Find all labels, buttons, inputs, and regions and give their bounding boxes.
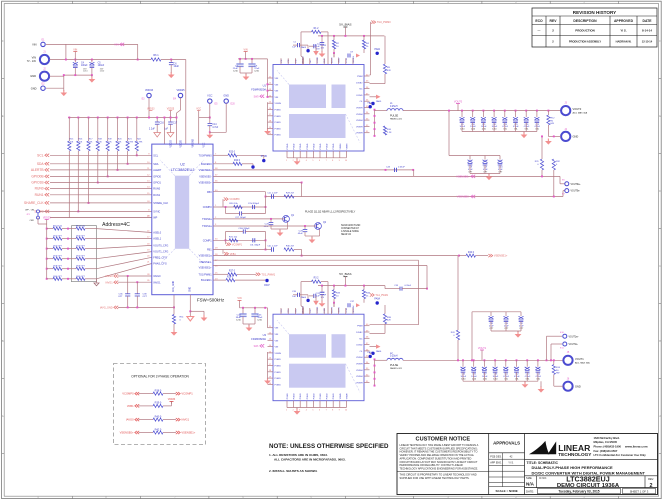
svg-text:VSWH: VSWH	[356, 364, 363, 366]
U3 PGND ground	[267, 378, 269, 381]
net flag VOUT0 tee	[456, 103, 460, 105]
wire VSENSE1+ corner down	[426, 266, 428, 289]
resistor R59	[76, 267, 85, 270]
U1 VIN input rail	[238, 58, 268, 60]
svg-text:PGND: PGND	[320, 393, 322, 399]
resistor R15 pull-up	[68, 118, 70, 142]
svg-text:YI S.: YI S.	[508, 462, 514, 465]
svg-text:VIN: VIN	[73, 48, 77, 51]
svg-text:VSWH: VSWH	[356, 108, 363, 110]
svg-text:VSENSE1+: VSENSE1+	[494, 254, 508, 258]
svg-text:NOTE: UNLESS OTHERWISE SPECIFI: NOTE: UNLESS OTHERWISE SPECIFIED	[269, 443, 389, 450]
phase0 J4 ground	[547, 139, 549, 142]
linear technology logo	[529, 441, 549, 454]
capacitor C4	[74, 60, 76, 63]
svg-text:VOUT0: VOUT0	[454, 100, 463, 103]
svg-text:VOUT1s-: VOUT1s-	[569, 344, 579, 346]
capacitor C18 47uF OPT	[469, 156, 471, 160]
svg-text:OPTIONAL FOR 2-PHASE OPERATION: OPTIONAL FOR 2-PHASE OPERATION	[131, 375, 189, 379]
terminal E20 GND	[224, 99, 228, 103]
svg-text:R1 2: R1 2	[314, 28, 320, 30]
wire VCC pin into U2	[198, 111, 200, 145]
svg-text:TG1/PWM1: TG1/PWM1	[199, 273, 213, 276]
svg-text:A SINGLE NODE: A SINGLE NODE	[341, 230, 359, 233]
svg-text:GPIO1: GPIO1	[153, 182, 161, 185]
svg-text:IAVG0: IAVG0	[153, 275, 161, 278]
wire addr row to U2	[85, 248, 97, 250]
resistor R26 207	[284, 248, 294, 251]
svg-text:TG0/PWM0: TG0/PWM0	[199, 154, 213, 157]
phase0 opt cap bus	[470, 155, 500, 157]
svg-text:PA0B: PA0B	[367, 102, 373, 105]
resistor R55	[76, 247, 85, 250]
wires sense to terminals	[541, 170, 543, 176]
connector J6 GND	[563, 382, 572, 391]
C33 ground	[321, 301, 323, 304]
power tee VDD33	[170, 400, 174, 402]
svg-text:1uF: 1uF	[316, 296, 320, 298]
wire E20 GND drop	[225, 103, 227, 132]
capacitor C1 1uF	[297, 43, 299, 47]
capacitor C45 100uF	[462, 359, 464, 361]
svg-text:VSENSE1+: VSENSE1+	[199, 267, 213, 270]
capacitor C51 47uF OPT	[520, 312, 522, 316]
svg-text:Address=4C: Address=4C	[102, 222, 130, 228]
svg-text:PA02: PA02	[374, 48, 380, 51]
svg-text:REV: REV	[550, 19, 558, 23]
svg-text:VSWH: VSWH	[356, 357, 363, 359]
wire VSENSE1+ long	[213, 265, 427, 267]
svg-text:43nF: 43nF	[298, 233, 304, 235]
TSNS0 wire to Q1	[213, 218, 282, 220]
svg-text:ASEL1: ASEL1	[153, 238, 161, 241]
svg-text:R6 1: R6 1	[153, 54, 159, 57]
svg-text:IAVG1: IAVG1	[105, 281, 113, 284]
svg-text:FDMF6820A: FDMF6820A	[251, 88, 266, 92]
svg-text:PGND: PGND	[275, 378, 282, 380]
capacitor C54 470uF	[537, 359, 539, 361]
svg-text:VSWH: VSWH	[356, 133, 363, 135]
svg-text:PGND: PGND	[307, 143, 309, 149]
test pad PA0C	[369, 355, 372, 358]
svg-text:PCB DES.: PCB DES.	[490, 455, 502, 458]
svg-text:RUN1: RUN1	[153, 194, 160, 197]
wire phase1 output rail	[403, 359, 564, 361]
wire VINSNS drop	[185, 60, 187, 145]
net flag TG0_PWM0 top	[249, 154, 251, 156]
resistor R6	[151, 58, 161, 61]
svg-text:R30 207: R30 207	[286, 246, 295, 248]
svg-text:NC: NC	[359, 89, 363, 91]
capacitor C17 1uF	[170, 118, 172, 122]
capacitor C45 39uF	[254, 308, 256, 314]
svg-text:PGND: PGND	[333, 393, 335, 399]
capacitor C21 2.2nF	[271, 194, 273, 198]
U2 AVG_GND ground	[173, 330, 175, 333]
svg-text:PGND: PGND	[275, 359, 282, 361]
net flag VSENSE0+ mid	[471, 175, 475, 178]
svg-text:IAVG0: IAVG0	[126, 418, 134, 422]
capacitor C52 470uF	[516, 359, 518, 361]
terminal E2 GND	[41, 86, 45, 90]
net flag VSENSE0- mid	[471, 195, 475, 198]
svg-text:N/A: N/A	[526, 482, 535, 487]
wire VSENSE0a drop	[413, 170, 415, 177]
inductor L1	[387, 109, 403, 111]
svg-text:2: 2	[650, 483, 653, 489]
svg-text:PA0C: PA0C	[367, 351, 373, 354]
svg-text:GPIO0: GPIO0	[153, 176, 161, 179]
svg-text:C2H 330pF: C2H 330pF	[248, 203, 260, 205]
ic U2 LTC3882EUJ body	[152, 144, 213, 295]
ic U3 FDMF6820A body	[273, 314, 364, 401]
svg-text:YI S.: YI S.	[620, 29, 626, 33]
wire E4 down to bus end	[180, 98, 182, 110]
wire GPIO1B signal	[50, 182, 152, 184]
capacitor C33 1uF	[321, 286, 323, 292]
resistor R53	[76, 237, 85, 240]
svg-text:ALERT: ALERT	[153, 169, 161, 172]
Q1 ground	[279, 230, 281, 233]
svg-text:REVISION HISTORY: REVISION HISTORY	[573, 10, 616, 15]
U3 bottom PGND ground	[296, 409, 298, 412]
capacitor C2H 330pF	[252, 205, 254, 209]
capacitor C8 22uF	[251, 59, 253, 64]
connector J4 GND	[561, 132, 570, 141]
resistor R20 pull-up	[117, 118, 119, 142]
sense resistors R29 R32	[540, 159, 543, 170]
capacitor C28 43nF	[270, 218, 272, 220]
svg-text:SDA: SDA	[153, 163, 158, 166]
svg-text:HW: HW	[551, 123, 554, 125]
svg-text:VDD25: VDD25	[181, 139, 183, 147]
svg-text:APPROVED: APPROVED	[614, 19, 634, 23]
test pad PA07	[251, 165, 254, 168]
svg-text:TECHNOLOGY: TECHNOLOGY	[558, 452, 592, 457]
wire J2/E2 ground link	[50, 75, 64, 77]
customer notice box	[488, 434, 490, 495]
U2 GND branch ground	[190, 310, 204, 312]
svg-text:RUN0: RUN0	[35, 187, 44, 191]
svg-text:OPT: OPT	[143, 296, 148, 298]
C14 ground	[209, 132, 211, 135]
wire J6 link	[554, 385, 564, 387]
svg-text:SYNC: SYNC	[153, 211, 160, 214]
inductor L2	[387, 358, 403, 360]
svg-text:42K: 42K	[387, 70, 391, 72]
svg-text:PGND: PGND	[287, 393, 289, 399]
capacitor C4L 2.2nF	[271, 247, 273, 251]
terminal E7 VOUT0s-	[553, 196, 555, 198]
capacitor C110 47uF OPT	[499, 156, 501, 160]
resistor R14	[546, 359, 548, 361]
svg-text:PGND: PGND	[275, 372, 282, 374]
capacitor C25 470uF	[515, 110, 517, 112]
svg-text:GPIO1B: GPIO1B	[31, 181, 44, 185]
svg-text:ECO: ECO	[535, 19, 543, 23]
U1 CGND arrow	[370, 96, 377, 98]
test pad PA05 OL	[371, 102, 374, 105]
svg-text:1uF: 1uF	[292, 47, 296, 49]
svg-text:Fax: (408)434-0507: Fax: (408)434-0507	[594, 449, 618, 453]
wire RUN0 signal	[50, 188, 152, 190]
wire TG0_PWM0 net vertical	[371, 21, 375, 24]
resistor R30 10k	[234, 205, 243, 208]
net flag VSENSE1+ right	[488, 254, 492, 257]
svg-text:R38 0: R38 0	[155, 389, 162, 392]
svg-text:VCC: VCC	[204, 142, 206, 147]
resistor R50	[46, 228, 48, 230]
wire IAVG_GND	[118, 306, 174, 308]
svg-text:PHAS_CFG: PHAS_CFG	[153, 263, 167, 266]
capacitor C11 100uF	[482, 110, 484, 112]
svg-text:SW1: SW1	[254, 346, 260, 348]
svg-text:VIN: VIN	[275, 347, 279, 349]
net flag VIN U3	[238, 299, 242, 301]
wire TG1 net horizontal	[370, 324, 419, 326]
svg-text:VCOMP1: VCOMP1	[232, 243, 243, 246]
wire IAVG0	[118, 275, 152, 277]
svg-text:VIN: VIN	[275, 334, 279, 336]
svg-text:VINSNS: VINSNS	[193, 138, 195, 147]
resistor R27 TG1	[228, 273, 237, 276]
wire SYNC signal	[50, 210, 152, 212]
U1 PGND left stubs	[267, 102, 269, 127]
svg-text:DESCRIPTION: DESCRIPTION	[573, 19, 597, 23]
svg-text:PA05: PA05	[376, 100, 382, 103]
resistor R51	[76, 227, 85, 230]
U1 PGND ground	[267, 129, 269, 132]
svg-text:TECHNOLOGY APPLICATIONS ENGINE: TECHNOLOGY APPLICATIONS ENGINEERING FOR …	[400, 466, 479, 470]
svg-text:RUN1: RUN1	[35, 193, 44, 197]
resistor R10 1.2K	[383, 126, 386, 135]
capacitor C37 cluster	[333, 302, 335, 304]
C16 analog ground	[154, 133, 161, 138]
wire WP to U2	[37, 218, 39, 224]
U2 bottom GND stub	[189, 295, 191, 317]
net flag VFB1	[135, 404, 139, 407]
capacitor C6	[170, 60, 172, 63]
U3 VSWH left label	[260, 344, 264, 347]
svg-text:GPIO0B: GPIO0B	[31, 175, 44, 179]
svg-text:PULSE: PULSE	[390, 364, 399, 367]
svg-text:R42 0: R42 0	[155, 428, 162, 431]
wire addr row to U2	[85, 258, 97, 260]
svg-text:C3H 330pF: C3H 330pF	[238, 228, 250, 230]
svg-text:1630 McCarthy Blvd.: 1630 McCarthy Blvd.	[594, 436, 621, 440]
capacitor C3 2.2uF	[313, 44, 315, 48]
resistor R22 pull-up	[136, 118, 138, 142]
svg-text:VOUT1s+: VOUT1s+	[569, 336, 580, 338]
svg-text:6: 6	[319, 160, 320, 162]
phase1 cap bottom bus	[463, 380, 538, 382]
svg-text:PGND: PGND	[275, 116, 282, 118]
U3 bottom PGND bus	[287, 407, 346, 409]
net flag IAVG1	[114, 281, 118, 284]
svg-text:DISB#: DISB#	[356, 332, 363, 334]
svg-text:4: 4	[306, 410, 307, 412]
svg-text:C14: C14	[212, 124, 217, 126]
terminal E11 VOUT1s-	[551, 343, 562, 345]
svg-text:COMP0: COMP0	[203, 206, 213, 209]
power tee VIN on rail	[73, 51, 77, 53]
U1 bottom PGND bus	[287, 157, 346, 159]
address network right column box	[72, 226, 97, 282]
wire WP signal	[50, 217, 152, 219]
svg-text:R53 OPT: R53 OPT	[76, 236, 85, 238]
resistor R16 pull-up	[77, 118, 79, 142]
wire ALERTB signal	[50, 169, 152, 171]
svg-text:VIN: VIN	[275, 340, 279, 342]
capacitor C14 4.7uF	[209, 118, 211, 124]
wire VSENSE0s short	[213, 182, 302, 184]
svg-text:TSNS0a: TSNS0a	[202, 218, 212, 221]
net flag VCOMP1	[176, 392, 180, 395]
svg-text:7: 7	[326, 410, 327, 412]
svg-text:5: 5	[312, 410, 313, 412]
svg-text:5V_BIAS: 5V_BIAS	[339, 272, 351, 276]
svg-text:6: 6	[319, 410, 320, 412]
svg-text:LTC3882EUJ: LTC3882EUJ	[171, 167, 195, 172]
svg-text:PRODUCTION: PRODUCTION	[575, 29, 594, 33]
svg-text:PWM: PWM	[357, 326, 363, 328]
net flag VCOMP0	[135, 392, 139, 395]
svg-text:VDD33: VDD33	[145, 89, 154, 92]
wire phase0 output rail	[403, 110, 566, 112]
svg-text:VOUT1: VOUT1	[575, 357, 584, 361]
svg-text:PA03: PA03	[301, 46, 307, 49]
svg-text:100uF: 100uF	[98, 65, 105, 67]
svg-text:VIN: VIN	[275, 328, 279, 330]
net flag SDA	[45, 162, 49, 165]
svg-text:1uF: 1uF	[292, 296, 296, 298]
svg-text:NC: NC	[359, 338, 363, 340]
optional 2-phase dashed box	[114, 364, 206, 445]
svg-text:DATE:: DATE:	[526, 489, 534, 493]
net flag IAVG0	[114, 274, 118, 277]
svg-text:PRODUCTION ASSEMBLY: PRODUCTION ASSEMBLY	[569, 40, 602, 44]
revision history table	[532, 8, 657, 47]
capacitor C36 OPT	[127, 276, 129, 294]
svg-text:NEAR U2: NEAR U2	[341, 233, 352, 236]
svg-text:PGND: PGND	[300, 143, 302, 149]
svg-text:BG0/EN0: BG0/EN0	[201, 163, 212, 166]
wire VSENSE0- long	[266, 196, 564, 198]
test pad PA02	[376, 52, 379, 55]
input cap bottom bus	[64, 74, 92, 76]
svg-text:R44 0: R44 0	[468, 252, 475, 254]
net flag VC1_PWM1	[370, 293, 374, 296]
svg-text:VCOMP0: VCOMP0	[122, 392, 134, 396]
U1 VSWH left label	[260, 95, 264, 98]
wire VSENSE1- long	[213, 259, 419, 261]
resistor R58	[46, 268, 48, 270]
Q2 ground	[311, 237, 313, 240]
svg-text:VSWH: VSWH	[356, 382, 363, 384]
capacitor C26 470uF	[525, 110, 527, 112]
svg-text:R61 OPT: R61 OPT	[76, 276, 85, 278]
wire SDA signal	[50, 163, 152, 165]
svg-text:SW0: SW0	[254, 96, 260, 98]
svg-text:RUN0: RUN0	[153, 188, 160, 191]
svg-text:1: 1	[286, 160, 287, 162]
svg-text:R59 OPT: R59 OPT	[76, 266, 85, 268]
net flag SHARE_CLK	[45, 201, 49, 204]
wire VSENSE0+ long	[213, 175, 560, 177]
wire TG1/PWM1	[213, 273, 228, 275]
svg-text:TITLE: SCHEMATIC: TITLE: SCHEMATIC	[527, 461, 559, 465]
svg-text:R55 OPT: R55 OPT	[76, 246, 85, 248]
terminal E6 VOUT0s+	[541, 175, 543, 177]
svg-text:2: 2	[293, 160, 294, 162]
svg-text:DATE: DATE	[643, 19, 653, 23]
svg-text:PA0815-321: PA0815-321	[390, 367, 403, 370]
svg-text:VSWH: VSWH	[340, 393, 342, 400]
U1 bottom PGND ground	[296, 159, 298, 162]
svg-text:PA06: PA06	[376, 350, 382, 353]
svg-text:VIN: VIN	[275, 91, 279, 93]
svg-text:C27 100pF: C27 100pF	[235, 217, 246, 219]
svg-text:VOUT0s+: VOUT0s+	[571, 184, 582, 186]
svg-text:VOUT0s-: VOUT0s-	[571, 191, 581, 193]
test pad PA0A	[376, 301, 379, 304]
terminal E3 VDD33	[147, 93, 151, 97]
test pad PA06 OL	[371, 352, 374, 355]
svg-text:VSWH: VSWH	[346, 143, 348, 150]
border zone ticks	[72, 1, 74, 3]
svg-text:R40 0: R40 0	[155, 415, 162, 418]
svg-text:0.05uF: 0.05uF	[398, 166, 405, 168]
connector J3 VOUT0	[561, 106, 570, 115]
ic U1 FDMF6820A body	[273, 65, 364, 152]
wire VDD33 pin into U2	[163, 118, 165, 145]
svg-text:VCC: VCC	[207, 95, 212, 98]
phase0 opt cap ground	[488, 174, 490, 177]
wire SHARE_CLK signal	[50, 202, 152, 204]
net flag VOUT1 tee	[480, 349, 484, 351]
svg-text:ASEL0: ASEL0	[153, 232, 161, 235]
svg-text:IAVG1: IAVG1	[153, 281, 161, 284]
net flag ALERTB	[45, 168, 49, 171]
svg-text:VSENSE0+: VSENSE0+	[199, 182, 213, 185]
svg-text:PGND: PGND	[307, 393, 309, 399]
wire FB1 row	[213, 249, 266, 251]
svg-text:R31 10k: R31 10k	[229, 236, 238, 238]
test pad PA04	[306, 299, 309, 302]
svg-text:SCL: SCL	[153, 154, 158, 157]
resistor R43 0	[456, 330, 459, 340]
net flag VSENSE1+	[176, 431, 180, 434]
resistor R21 pull-up	[127, 118, 129, 142]
svg-text:R23 0: R23 0	[229, 151, 236, 153]
capacitor C16 2.2uF	[156, 118, 158, 122]
capacitor C3L 330pF	[252, 238, 254, 242]
wire VSENSE1 feedback vertical	[457, 256, 459, 330]
svg-text:ADJ, MAX 30A: ADJ, MAX 30A	[573, 112, 588, 115]
capacitor C39 0.33uF	[399, 287, 401, 291]
wire E1 drop short	[65, 44, 67, 59]
svg-text:VIN: VIN	[32, 43, 36, 47]
resistor R60	[46, 278, 48, 280]
net flag SCL	[45, 154, 49, 157]
wire PWM pin link	[370, 74, 371, 76]
svg-text:U2: U2	[180, 163, 185, 167]
C2 ground	[321, 51, 323, 54]
wire FB0 row	[213, 191, 266, 193]
wire E3 to bus	[148, 98, 150, 118]
resistor R9 42K	[383, 64, 386, 74]
wire FB0 net down	[265, 192, 267, 197]
